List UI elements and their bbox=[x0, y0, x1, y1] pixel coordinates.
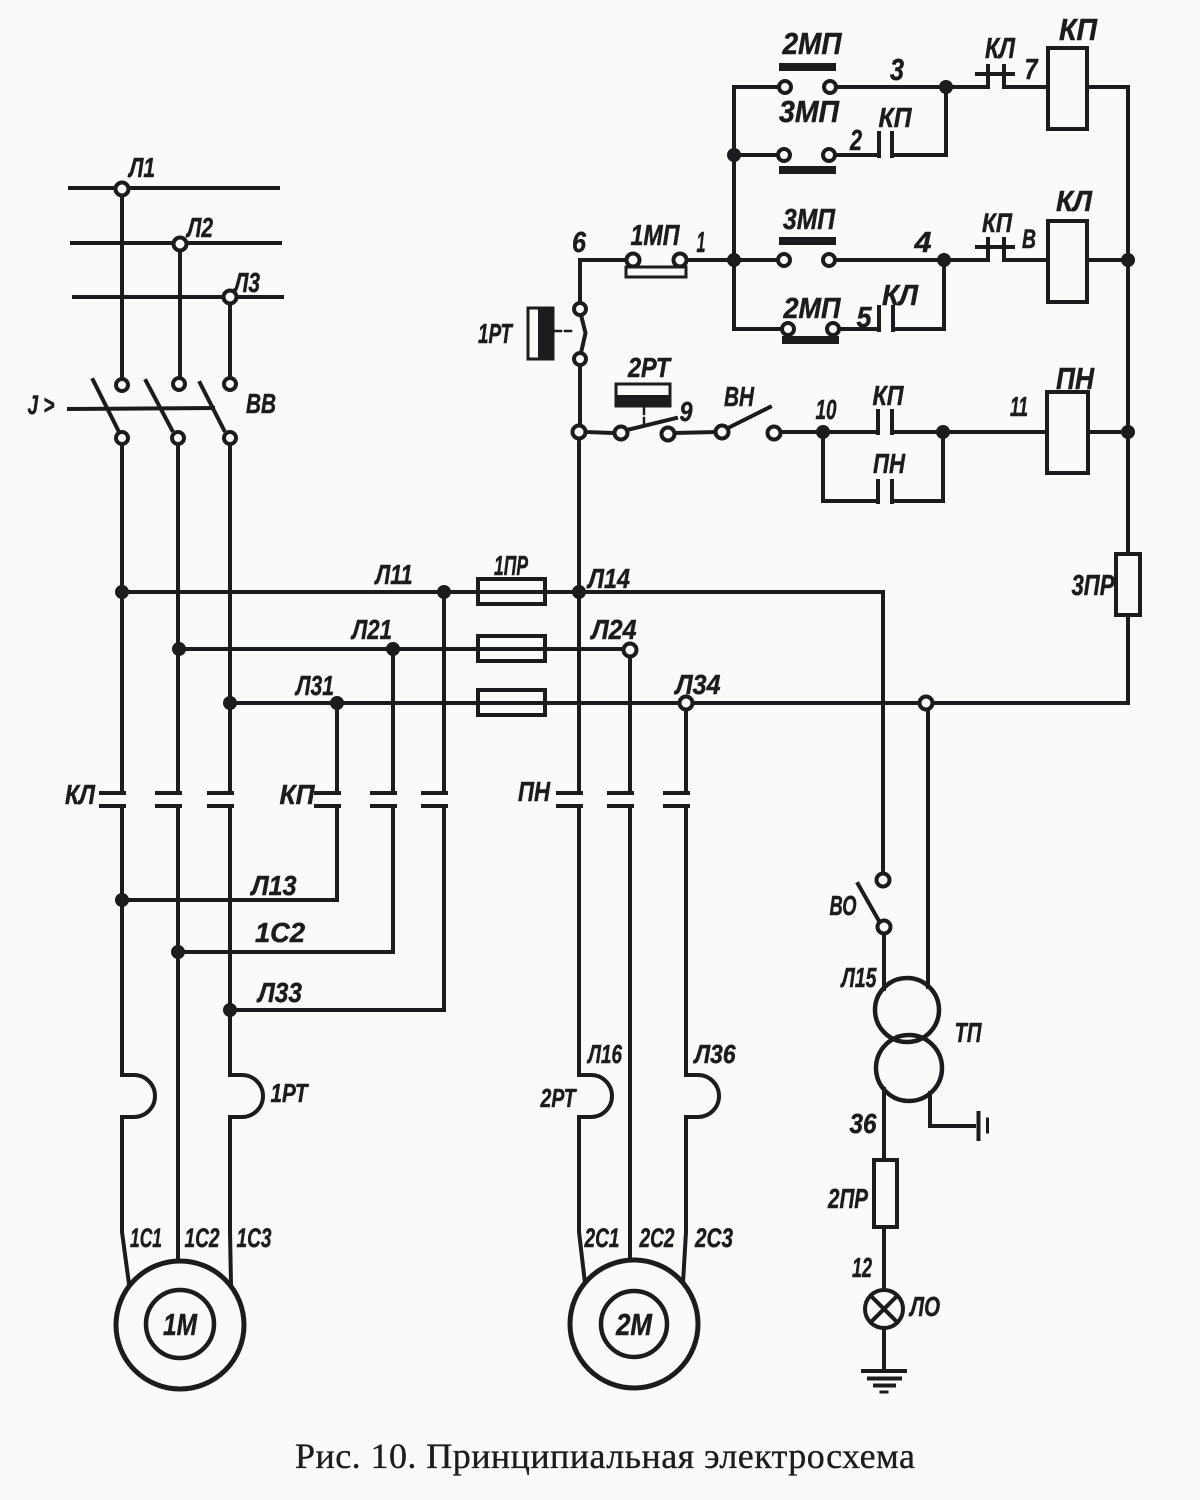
svg-text:Рис. 10. Принципиальная электр: Рис. 10. Принципиальная электросхема bbox=[295, 1436, 915, 1476]
svg-text:КП: КП bbox=[873, 380, 905, 411]
svg-text:Л36: Л36 bbox=[693, 1039, 736, 1069]
svg-text:1С2: 1С2 bbox=[185, 1223, 220, 1253]
svg-text:Л16: Л16 bbox=[587, 1039, 623, 1069]
svg-text:J >: J > bbox=[28, 390, 55, 420]
svg-text:2МП: 2МП bbox=[782, 26, 843, 61]
svg-text:В: В bbox=[1022, 224, 1036, 254]
svg-text:11: 11 bbox=[1010, 391, 1028, 422]
svg-text:2М: 2М bbox=[615, 1307, 653, 1342]
svg-text:1ПР: 1ПР bbox=[494, 550, 528, 581]
svg-text:2: 2 bbox=[849, 125, 862, 157]
svg-text:2С3: 2С3 bbox=[694, 1223, 733, 1253]
svg-text:1МП: 1МП bbox=[631, 220, 681, 252]
svg-text:КП: КП bbox=[982, 208, 1012, 238]
svg-text:12: 12 bbox=[852, 1252, 872, 1283]
svg-text:1С3: 1С3 bbox=[237, 1223, 272, 1253]
svg-text:3МП: 3МП bbox=[779, 94, 840, 129]
svg-text:9: 9 bbox=[680, 396, 693, 427]
svg-text:ВО: ВО bbox=[830, 890, 857, 921]
svg-text:КЛ: КЛ bbox=[985, 33, 1016, 65]
svg-text:2С2: 2С2 bbox=[639, 1223, 675, 1253]
svg-text:Л21: Л21 bbox=[350, 614, 392, 645]
svg-text:2ПР: 2ПР bbox=[827, 1183, 868, 1214]
svg-text:2РТ: 2РТ bbox=[540, 1083, 577, 1113]
svg-text:Л13: Л13 bbox=[250, 870, 297, 901]
svg-text:1РТ: 1РТ bbox=[478, 318, 514, 349]
svg-text:КП: КП bbox=[280, 779, 316, 810]
svg-text:3ПР: 3ПР bbox=[1072, 570, 1115, 602]
svg-text:3МП: 3МП bbox=[783, 204, 836, 236]
svg-text:ПН: ПН bbox=[873, 448, 906, 479]
svg-text:ТП: ТП bbox=[955, 1017, 983, 1048]
svg-text:КЛ: КЛ bbox=[882, 280, 919, 312]
svg-text:ЛО: ЛО bbox=[909, 1291, 941, 1322]
svg-text:Л33: Л33 bbox=[256, 977, 302, 1008]
svg-text:5: 5 bbox=[857, 302, 873, 334]
svg-text:КП: КП bbox=[1059, 12, 1098, 47]
svg-text:Л1: Л1 bbox=[128, 152, 155, 183]
svg-text:ВВ: ВВ bbox=[246, 388, 276, 419]
svg-text:10: 10 bbox=[816, 394, 837, 425]
svg-text:1РТ: 1РТ bbox=[271, 1078, 310, 1108]
svg-text:6: 6 bbox=[572, 227, 587, 259]
svg-text:КЛ: КЛ bbox=[65, 779, 96, 810]
svg-text:36: 36 bbox=[850, 1108, 877, 1139]
svg-text:ПН: ПН bbox=[1056, 361, 1095, 396]
svg-text:КП: КП bbox=[879, 102, 913, 133]
svg-text:1М: 1М bbox=[163, 1307, 198, 1342]
svg-text:Л15: Л15 bbox=[840, 962, 877, 993]
svg-text:3: 3 bbox=[890, 52, 904, 87]
svg-text:7: 7 bbox=[1025, 54, 1039, 86]
svg-text:1: 1 bbox=[697, 227, 706, 259]
svg-text:ПН: ПН bbox=[518, 776, 551, 807]
svg-text:2РТ: 2РТ bbox=[627, 352, 672, 383]
svg-text:Л2: Л2 bbox=[186, 212, 214, 243]
svg-text:1С2: 1С2 bbox=[255, 917, 305, 948]
svg-text:1С1: 1С1 bbox=[130, 1223, 162, 1253]
svg-text:КЛ: КЛ bbox=[1056, 186, 1093, 218]
svg-text:ВН: ВН bbox=[724, 381, 755, 412]
svg-text:Л3: Л3 bbox=[233, 267, 261, 298]
svg-text:Л34: Л34 bbox=[674, 669, 721, 700]
svg-text:2МП: 2МП bbox=[783, 293, 842, 325]
svg-text:Л24: Л24 bbox=[590, 614, 637, 645]
svg-text:4: 4 bbox=[913, 227, 931, 259]
svg-text:Л14: Л14 bbox=[586, 563, 630, 594]
svg-text:Л31: Л31 bbox=[294, 670, 334, 701]
svg-text:2С1: 2С1 bbox=[584, 1223, 620, 1253]
svg-text:Л11: Л11 bbox=[374, 559, 413, 590]
